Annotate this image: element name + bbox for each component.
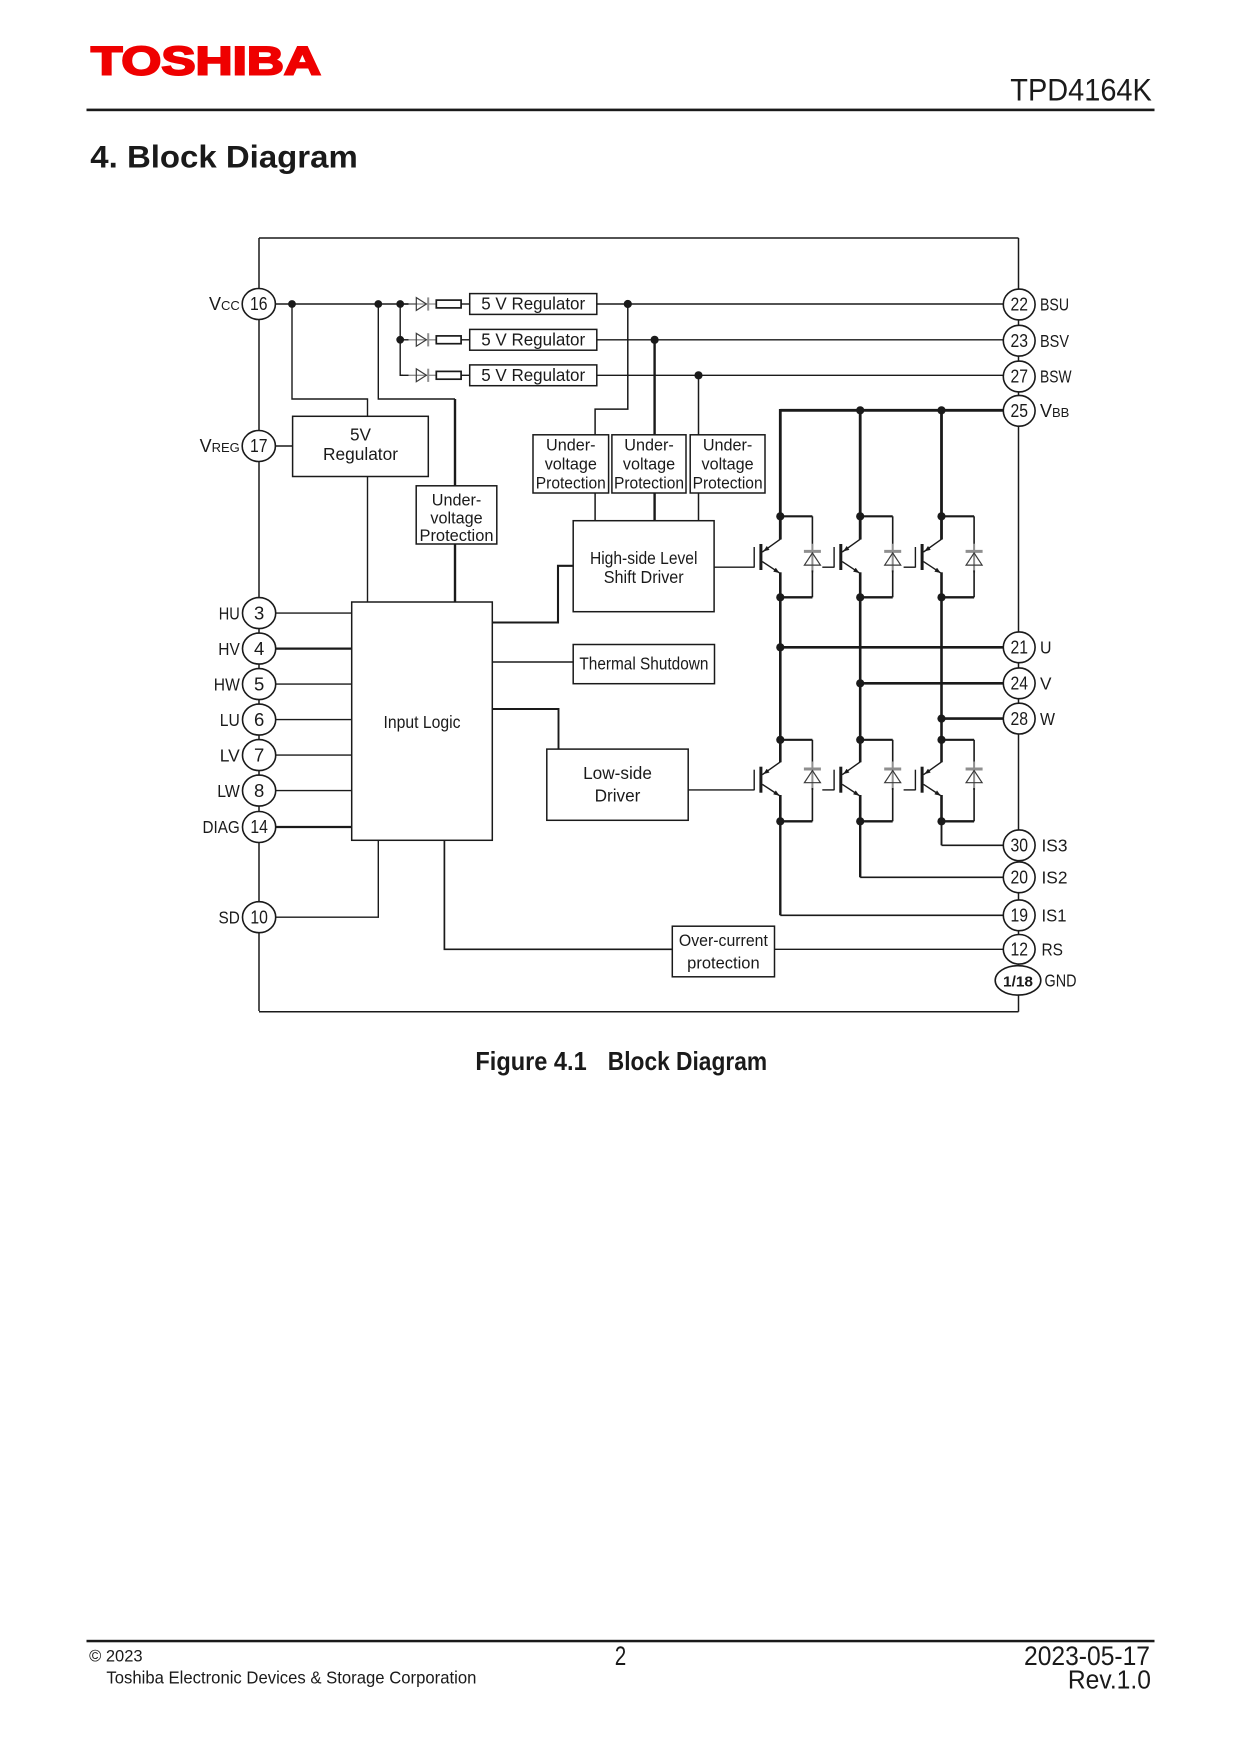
block Under-voltage Protection (VREG) (416, 486, 497, 545)
node V tap (856, 679, 864, 687)
svg-text:4: 4 (254, 638, 264, 659)
pin 17 VREG (200, 431, 276, 462)
node QVH emitter (856, 593, 864, 601)
pin 25 VBB (1003, 395, 1069, 426)
wire W phase rail (940, 597, 943, 740)
svg-text:SD: SD (219, 907, 240, 927)
svg-text:17: 17 (250, 435, 268, 456)
wire VCC branch to under-voltage protection (thick part) (454, 399, 456, 486)
svg-text:22: 22 (1010, 294, 1028, 315)
svg-text:VREG: VREG (200, 436, 240, 456)
block Under-voltage Protection (BSV) (612, 435, 686, 493)
node QWH emitter (937, 593, 945, 601)
svg-text:21: 21 (1010, 637, 1028, 658)
node QUL emitter (776, 817, 784, 825)
wire outer frame bottom (259, 1011, 1019, 1013)
svg-text:RS: RS (1042, 940, 1064, 960)
svg-text:10: 10 (250, 906, 268, 927)
wire input logic to thermal shutdown (492, 661, 573, 663)
svg-text:30: 30 (1010, 835, 1028, 856)
svg-text:19: 19 (1010, 905, 1028, 926)
wire QWL collector (940, 740, 943, 763)
wire input logic to low-side driver (492, 709, 558, 749)
block Input Logic (352, 602, 493, 840)
wire BSV tap to UVP-V (653, 340, 655, 435)
node VCC junction B (374, 300, 382, 308)
wire V high-side collector to diode (860, 515, 893, 517)
svg-text:HV: HV (218, 639, 240, 659)
svg-text:5 V Regulator: 5 V Regulator (481, 329, 585, 349)
block 5 V Regulator (BSV) (470, 329, 597, 350)
svg-text:IS3: IS3 (1042, 836, 1068, 856)
wire outer frame top (259, 237, 1019, 239)
wire 5V regulator W to BSW pin (597, 374, 1004, 376)
svg-text:2: 2 (615, 1641, 627, 1671)
wire VBB bus (780, 409, 1003, 412)
svg-text:IS1: IS1 (1042, 906, 1067, 926)
wire U low-side collector to diode (780, 739, 812, 741)
svg-text:25: 25 (1010, 400, 1028, 421)
svg-text:3: 3 (254, 602, 264, 623)
svg-text:6: 6 (254, 709, 264, 730)
wire R1 to regulator (461, 303, 470, 305)
svg-text:20: 20 (1010, 867, 1028, 888)
node QUH emitter (776, 593, 784, 601)
wire 5V regulator U to BSU pin (597, 303, 1004, 305)
svg-text:8: 8 (254, 780, 264, 801)
node BSV diode tap (396, 336, 404, 344)
block Thermal Shutdown (573, 645, 714, 684)
wire U phase rail (779, 597, 782, 740)
svg-text:Under-: Under- (546, 437, 595, 455)
wire HV input (276, 647, 352, 649)
svg-text:BSU: BSU (1040, 295, 1069, 315)
svg-text:VBB: VBB (1040, 401, 1069, 421)
wire over-current protection to RS pin (775, 948, 1004, 950)
block 5 V Regulator (BSU) (470, 294, 597, 315)
svg-text:Figure 4.1: Figure 4.1 (475, 1046, 586, 1076)
wire U high-side collector to diode (780, 515, 812, 517)
svg-text:BSW: BSW (1040, 367, 1072, 387)
svg-text:5V: 5V (350, 424, 372, 444)
wire diode DVH to emitter rail (860, 596, 893, 598)
resistor R1 (436, 300, 461, 308)
svg-text:1/18: 1/18 (1003, 974, 1033, 991)
svg-text:Shift Driver: Shift Driver (604, 567, 684, 587)
wire diode DVL to emitter rail (860, 820, 893, 822)
svg-text:Under-: Under- (432, 492, 481, 510)
wire VREG pin to regulator (276, 445, 293, 447)
wire QVL gate stub (822, 789, 834, 791)
diode D3 (BSW) (400, 369, 436, 382)
node BSW tap (694, 371, 702, 379)
wire VBB to W-phase high-side collector (940, 410, 943, 539)
node VCC junction C (396, 300, 404, 308)
wire V output (860, 682, 1003, 685)
wire VCC bus (276, 303, 417, 305)
diode DVL (low-side freewheel) (884, 740, 901, 822)
node QWL collector (937, 736, 945, 744)
svg-text:Rev.1.0: Rev.1.0 (1068, 1666, 1151, 1694)
block Over-current protection (672, 926, 774, 977)
node VBB / V branch (856, 406, 864, 414)
svg-text:5 V Regulator: 5 V Regulator (481, 365, 585, 385)
wire BSU tap to UVP-U (595, 304, 628, 435)
node QWL emitter (937, 817, 945, 825)
svg-text:voltage: voltage (623, 456, 675, 474)
pin 1/18 GND (995, 966, 1076, 995)
svg-text:voltage: voltage (545, 456, 597, 474)
diode DWL (low-side freewheel) (966, 740, 983, 822)
wire VBB to V-phase high-side collector (859, 410, 862, 539)
wire input logic to over-current protection (444, 840, 672, 949)
wire VBB to U-phase high-side collector (779, 409, 782, 540)
wire BSW tap to UVP-W (698, 375, 700, 435)
wire QVH gate stub (822, 566, 834, 568)
diode DWH (high-side freewheel) (966, 516, 983, 597)
diode DVH (high-side freewheel) (884, 516, 901, 597)
svg-text:5 V Regulator: 5 V Regulator (481, 294, 585, 314)
svg-text:Toshiba Electronic Devices & S: Toshiba Electronic Devices & Storage Cor… (106, 1668, 476, 1688)
diode DUL (low-side freewheel) (804, 740, 821, 822)
pin 30 IS3 (1003, 830, 1067, 861)
wire diode DWH to emitter rail (942, 596, 975, 598)
wire outer frame left (258, 238, 260, 1011)
wire V low-side collector to diode (860, 739, 893, 741)
pin 5 HW (214, 669, 276, 700)
transistor QWL (low-side IGBT) (915, 762, 941, 796)
svg-text:12: 12 (1010, 939, 1028, 960)
svg-text:Block Diagram: Block Diagram (608, 1046, 767, 1076)
pin 19 IS1 (1003, 900, 1066, 931)
svg-text:Low-side: Low-side (583, 763, 652, 783)
pin 16 VCC (209, 289, 275, 320)
block Under-voltage Protection (BSW) (690, 435, 765, 493)
wire R2 to regulator (461, 339, 470, 341)
wire QWL emitter (940, 795, 943, 821)
node BSV tap (651, 336, 659, 344)
pin 8 LW (217, 775, 275, 806)
transistor QVH (high-side IGBT) (834, 539, 860, 573)
svg-text:Under-: Under- (703, 437, 752, 455)
svg-text:Thermal Shutdown: Thermal Shutdown (579, 654, 708, 674)
wire DIAG input (276, 826, 352, 828)
svg-text:W: W (1040, 709, 1055, 729)
wire QUH emitter (779, 572, 782, 597)
wire VCC branch to under-voltage protection (thin part) (378, 304, 455, 399)
wire UVP-V to high-side driver (653, 493, 655, 521)
pin 3 HU (219, 598, 276, 629)
pin 4 HV (218, 633, 275, 664)
pin 24 V (1003, 668, 1052, 699)
svg-text:High-side Level: High-side Level (590, 548, 698, 568)
wire LW input (276, 790, 352, 792)
wire diode DUH to emitter rail (780, 596, 812, 598)
node W tap (937, 715, 945, 723)
svg-text:Driver: Driver (595, 786, 641, 806)
svg-text:5: 5 (254, 673, 264, 694)
wire QVL collector (859, 740, 862, 763)
wire HU input (276, 612, 352, 614)
svg-text:Input Logic: Input Logic (384, 712, 461, 732)
svg-text:voltage: voltage (701, 456, 753, 474)
wire VCC branch to 5V regulator (292, 304, 368, 417)
pin 7 LV (220, 740, 276, 771)
svg-text:Regulator: Regulator (323, 444, 398, 464)
footer rule (87, 1640, 1155, 1643)
block Low-side Driver (547, 749, 688, 820)
svg-text:7: 7 (254, 744, 264, 765)
svg-text:protection: protection (687, 954, 759, 972)
transistor QVL (low-side IGBT) (834, 762, 860, 796)
svg-text:VCC: VCC (209, 294, 240, 314)
transistor QUH (high-side IGBT) (754, 539, 780, 573)
svg-text:Protection: Protection (420, 527, 494, 545)
wire QVL emitter (859, 795, 862, 821)
block 5 V Regulator (BSW) (470, 365, 597, 386)
wire IS1 (U emitter sense) (779, 821, 781, 915)
svg-text:Protection: Protection (614, 474, 684, 492)
pin 28 W (1003, 703, 1055, 734)
svg-text:U: U (1040, 638, 1052, 658)
svg-text:voltage: voltage (430, 509, 482, 527)
wire high-side driver to QUH gate (714, 566, 754, 568)
diode DUH (high-side freewheel) (804, 516, 821, 597)
svg-text:Over-current: Over-current (679, 932, 768, 950)
svg-text:14: 14 (250, 816, 268, 837)
node BSU tap (624, 300, 632, 308)
wire UVP-W to high-side driver (698, 493, 700, 521)
svg-text:BSV: BSV (1040, 331, 1069, 351)
svg-text:© 2023: © 2023 (89, 1647, 143, 1665)
pin 14 DIAG (203, 812, 276, 843)
svg-text:LV: LV (220, 745, 240, 765)
pin 10 SD (219, 902, 276, 933)
svg-text:TPD4164K: TPD4164K (1010, 71, 1152, 107)
svg-text:LU: LU (220, 710, 240, 730)
block High-side Level Shift Driver (573, 521, 714, 612)
node VBB / W branch (937, 406, 945, 414)
diode D2 (BSV) (400, 333, 436, 346)
wire R3 to regulator (461, 374, 470, 376)
pin 22 BSU (1003, 289, 1069, 320)
wire VCC to BSW diode (400, 340, 403, 376)
node QUH collector (776, 512, 784, 520)
wire VCC to BSV diode (399, 304, 401, 340)
svg-text:GND: GND (1045, 971, 1077, 991)
wire low-side driver to QUL gate (688, 789, 754, 791)
wire UVP-U to high-side driver (594, 493, 596, 521)
diode D1 (BSU) (400, 297, 436, 310)
wire W output (942, 717, 1004, 720)
svg-text:HW: HW (214, 674, 240, 694)
wire diode DWL to emitter rail (942, 820, 975, 822)
block 5V Regulator (VREG) (293, 416, 429, 476)
wire input logic to high-side driver (492, 566, 573, 623)
wire IS3 (W emitter sense) (941, 821, 943, 845)
wire QWH emitter (940, 572, 943, 597)
wire right pin chain / frame right (1018, 238, 1020, 1012)
resistor R3 (436, 371, 461, 379)
svg-text:Protection: Protection (536, 474, 606, 492)
svg-text:TOSHIBA: TOSHIBA (91, 40, 321, 84)
node QUL collector (776, 736, 784, 744)
pin 23 BSV (1003, 325, 1069, 356)
svg-text:IS2: IS2 (1042, 868, 1068, 888)
header rule (87, 109, 1155, 112)
wire diode DUL to emitter rail (780, 820, 812, 822)
svg-text:V: V (1040, 674, 1052, 694)
pin 20 IS2 (1003, 862, 1067, 893)
svg-text:4. Block Diagram: 4. Block Diagram (90, 138, 358, 174)
svg-text:Protection: Protection (693, 474, 763, 492)
node U tap (776, 643, 784, 651)
svg-text:23: 23 (1010, 330, 1028, 351)
node QWH collector (937, 512, 945, 520)
wire LU input (276, 719, 352, 721)
svg-text:27: 27 (1010, 366, 1028, 387)
node QVL emitter (856, 817, 864, 825)
wire QVH emitter (859, 572, 862, 597)
svg-text:Under-: Under- (624, 437, 673, 455)
pin 27 BSW (1003, 361, 1072, 392)
transistor QUL (low-side IGBT) (754, 762, 780, 796)
pin 6 LU (220, 704, 276, 735)
node VCC junction A (288, 300, 296, 308)
node QVH collector (856, 512, 864, 520)
resistor R2 (436, 336, 461, 344)
wire QWH gate stub (904, 566, 916, 568)
svg-text:16: 16 (250, 293, 268, 314)
node QVL collector (856, 736, 864, 744)
wire QUL emitter (779, 795, 782, 821)
wire 5V regulator V to BSV pin (597, 339, 1004, 341)
wire IS2 (V emitter sense) (859, 821, 861, 877)
block Under-voltage Protection (BSU) (533, 435, 609, 493)
transistor QWH (high-side IGBT) (915, 539, 941, 573)
wire QWL gate stub (904, 789, 916, 791)
pin 21 U (1003, 632, 1051, 663)
wire W high-side collector to diode (942, 515, 975, 517)
wire U output (780, 646, 1003, 649)
pin 12 RS (1003, 935, 1063, 965)
svg-text:HU: HU (219, 603, 240, 623)
svg-text:LW: LW (217, 781, 240, 801)
wire 5V regulator to input logic (367, 477, 369, 603)
svg-text:24: 24 (1010, 673, 1028, 694)
svg-text:DIAG: DIAG (203, 817, 240, 837)
wire LV input (276, 754, 352, 756)
wire HW input (276, 683, 352, 685)
wire SD input (276, 840, 378, 917)
svg-text:28: 28 (1010, 708, 1028, 729)
wire UVP (VREG) to input logic (454, 544, 456, 602)
wire W low-side collector to diode (942, 739, 975, 741)
wire QUL collector (779, 740, 782, 763)
wire V phase rail (859, 597, 862, 740)
